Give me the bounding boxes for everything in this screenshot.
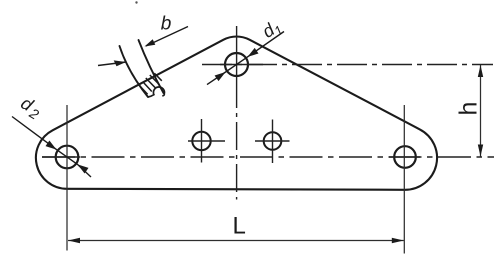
hole right	[394, 146, 416, 168]
arrowheads	[46, 39, 484, 243]
arrow h bottom	[478, 145, 483, 157]
svg-text:b: b	[161, 14, 172, 35]
svg-text:d2: d2	[16, 93, 45, 123]
hole D1 top	[225, 53, 248, 76]
extension line right	[403, 105, 405, 254]
section cut line right	[139, 40, 164, 93]
stray scan dot	[135, 1, 137, 3]
svg-text:L: L	[233, 213, 246, 240]
arrow b left	[114, 60, 126, 66]
leader line d2	[12, 117, 91, 178]
svg-text:h: h	[455, 102, 483, 116]
crosshair mid-right hole	[255, 120, 290, 164]
svg-text:d1: d1	[259, 16, 286, 45]
hole mid-right	[264, 132, 282, 150]
dimension line L	[68, 240, 404, 242]
arrow b right	[145, 39, 156, 46]
arrow d2 lower	[78, 164, 89, 173]
arrow d1 lower	[215, 72, 226, 81]
dimension line h	[480, 65, 482, 157]
section cut line left	[120, 40, 164, 97]
hatch lines	[141, 73, 162, 94]
solid crosshair through top hole	[220, 64, 263, 66]
hole mid-left	[192, 132, 210, 150]
arrow d2 upper	[46, 141, 57, 150]
arrow L right	[392, 238, 404, 243]
break line of section with hook	[148, 87, 164, 97]
leader line b left	[98, 62, 126, 66]
solid crosshair through right hole	[389, 156, 420, 158]
centerline horizontal top through hole D1	[202, 64, 493, 66]
leader line b right to label	[146, 27, 188, 47]
hole D2 left	[56, 146, 79, 169]
leader line d1	[207, 32, 284, 85]
crosshair mid-left hole	[188, 119, 225, 163]
extension line left (through D2 hole)	[66, 105, 68, 251]
centerline vertical symmetry axis	[236, 26, 238, 80]
arrow L left	[68, 238, 80, 243]
plate outline	[36, 36, 437, 189]
arrow d1 upper	[248, 48, 259, 57]
arrow h top	[478, 65, 483, 77]
solid crosshair through left hole	[42, 156, 80, 158]
centerline horizontal bottom through side holes	[42, 156, 494, 158]
